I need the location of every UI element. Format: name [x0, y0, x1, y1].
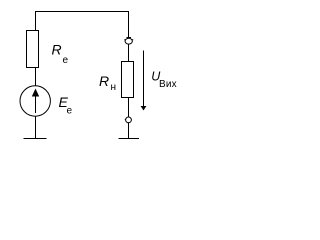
terminal top circle: [124, 38, 133, 44]
bottom rail right: [119, 138, 140, 140]
resistor Rn: [122, 62, 134, 98]
svg-text:Вих: Вих: [159, 79, 177, 90]
svg-text:R: R: [52, 42, 62, 58]
wire terminal to Rn: [128, 44, 130, 62]
wire right top drop: [128, 11, 130, 38]
label Ee: [59, 94, 73, 116]
svg-text:е: е: [67, 106, 73, 117]
current source Ee arrow: [32, 89, 39, 114]
wire bottom terminal to rail: [128, 122, 130, 138]
wire left top drop: [35, 11, 37, 31]
terminal top tick: [127, 37, 132, 39]
label Re: [52, 42, 69, 66]
wire Re to source: [35, 68, 37, 87]
resistor Re: [27, 31, 39, 68]
wire source to bottom rail: [35, 116, 37, 138]
label U_Vyh: [151, 69, 177, 90]
svg-text:н: н: [111, 82, 117, 93]
bottom rail left: [24, 138, 47, 140]
label Rn: [99, 73, 116, 93]
current source Ee circle: [20, 86, 50, 116]
terminal bottom circle: [125, 117, 132, 123]
wire top rail: [35, 11, 129, 13]
wire Rn to bottom terminal: [128, 98, 130, 118]
svg-text:е: е: [63, 55, 69, 66]
svg-text:R: R: [99, 73, 109, 89]
arrow U output shaft: [141, 51, 147, 111]
